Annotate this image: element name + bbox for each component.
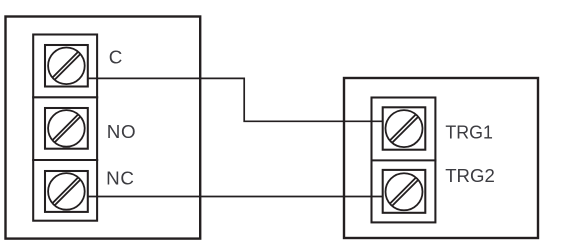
wire NC to TRG2 xyxy=(87,196,382,198)
screw slot C xyxy=(55,54,81,80)
svg-text:TRG2: TRG2 xyxy=(445,165,495,186)
screw terminal NO (square) xyxy=(45,108,88,149)
svg-text:TRG1: TRG1 xyxy=(445,121,493,142)
screw terminal C (square) xyxy=(45,45,88,87)
divider between TRG1 and TRG2 cells xyxy=(371,159,437,161)
screw head NO (circle) xyxy=(48,110,85,147)
trigger module outline (right box) xyxy=(344,78,538,238)
terminal block TB2 (right strip outline) xyxy=(372,98,436,223)
relay module outline (left box) xyxy=(6,17,201,239)
svg-text:NC: NC xyxy=(106,167,135,188)
screw head TRG2 (circle) xyxy=(386,173,423,210)
divider between NO and NC cells xyxy=(32,159,98,161)
terminal block TB1 (left strip outline) xyxy=(33,35,97,221)
wire C to TRG1 xyxy=(87,78,382,121)
screw head C (circle) xyxy=(48,48,85,85)
screw slot NC xyxy=(55,180,81,206)
screw terminal TRG2 (square) xyxy=(383,170,426,213)
svg-text:NO: NO xyxy=(107,121,137,142)
screw terminal NC (square) xyxy=(45,171,88,212)
screw slot TRG2 xyxy=(392,180,418,206)
screw terminal TRG1 (square) xyxy=(383,107,426,149)
divider between C and NO cells xyxy=(32,96,98,98)
screw head NC (circle) xyxy=(48,173,85,210)
screw slot NO xyxy=(55,117,81,143)
screw slot TRG1 xyxy=(392,117,418,143)
screw head TRG1 (circle) xyxy=(386,110,423,147)
svg-text:C: C xyxy=(109,46,123,67)
